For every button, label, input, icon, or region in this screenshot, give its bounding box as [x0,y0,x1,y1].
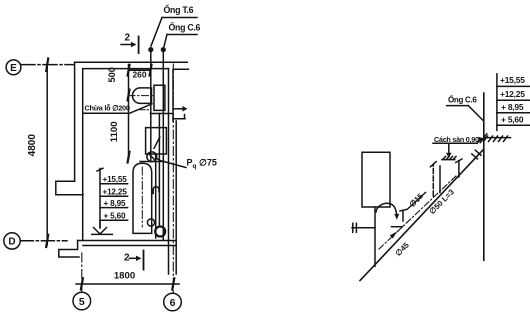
svg-text:+ 5,60: + 5,60 [501,114,524,124]
svg-text:500: 500 [107,67,117,82]
trap arc [376,203,399,220]
trap outlet dash [392,226,403,228]
label Pq leader [157,158,187,167]
bottom wall outer line [78,240,177,242]
centerline short [140,109,150,111]
label cach san underline [433,137,484,144]
right level line 15.55 [497,85,529,87]
flow arrowhead on supply [390,231,398,238]
shower box plan [146,128,167,154]
small floor hatch [442,156,456,159]
tick 1800 right [172,278,174,289]
svg-text:+ 5,60: + 5,60 [104,212,126,221]
right level line 12.25 [497,99,529,101]
shower box slash [154,137,160,148]
valve on supply [352,223,375,232]
supply dashdot short [379,176,456,249]
top wall outer line [75,61,188,63]
pipe stub lower through right wall [173,115,185,119]
section marker 2 bottom [130,251,144,270]
tank rectangle [362,152,390,207]
svg-text:+ 8,95: + 8,95 [104,199,126,208]
level line 8.95 [100,207,128,209]
top wall inner line [83,68,169,70]
svg-text:Ống C.6: Ống C.6 [169,22,201,33]
label Ong C6 right underline [447,106,484,121]
pipe riser 3 [158,114,160,227]
svg-text:E: E [10,63,17,74]
left wall inner line [82,69,84,241]
grid axis 5 dash-dot [81,253,83,292]
ground hatch at pipe [480,134,510,143]
level line 12.25 [100,195,128,197]
leader cach san down arrow [446,143,452,158]
pipe riser dot T6 [148,47,153,52]
floor drain circle A [147,152,157,162]
grid bubble 6 [164,293,182,311]
dimension line 260 [129,69,151,71]
bathtub plan [133,163,152,233]
tick on D line [46,235,48,247]
left wall outer line [74,62,76,181]
pipe chase rectangle [154,85,165,110]
left wall notch [56,181,83,195]
pipe riser dot C6 [161,47,166,52]
wall sleeve bracket right [173,69,188,121]
svg-text:+ 8,95: + 8,95 [501,102,524,112]
svg-text:+12,25: +12,25 [103,188,128,197]
tick 1800 left [81,278,83,289]
tub small circle [147,219,154,226]
floor drain cross [148,153,155,160]
main vertical pipe [483,93,485,260]
interior floor edge line [150,113,172,115]
svg-text:Chừa lỗ ∅200: Chừa lỗ ∅200 [85,104,130,113]
svg-text:Ống T.6: Ống T.6 [164,4,194,15]
main drain diagonal [360,149,484,280]
svg-text:∅50 L=3: ∅50 L=3 [427,187,456,216]
svg-text:D: D [8,237,15,248]
svg-text:+15,55: +15,55 [103,175,128,184]
svg-text:1800: 1800 [114,271,135,282]
grid axis 6 dash-dot [172,64,174,293]
tick 260 left [128,65,130,76]
bottom wall inner line [83,245,176,247]
tick 260 right [150,65,152,76]
grid bubble 5 [73,292,91,310]
right wall outer line [175,121,177,274]
drain circle C [155,227,165,237]
grid bubble D [4,233,20,249]
pipe stub arrow through right wall [173,106,188,112]
section marker 2 top [121,37,139,54]
svg-text:+15,55: +15,55 [500,75,525,85]
svg-text:Cách sàn 0,90: Cách sàn 0,90 [434,135,479,144]
tick 500 bottom [128,90,130,101]
pipe riser 1 [150,52,152,162]
dimension line 1800 [76,283,179,285]
trap hook in tub [153,187,159,194]
tank outlet pipe [374,207,376,266]
pipe riser 2 [155,154,157,238]
pipe riser 4 [162,52,164,240]
svg-text:5: 5 [79,296,85,308]
levels table left vertical [99,169,101,228]
label Chua lo underline [84,112,130,114]
tick on E line [46,59,48,72]
right level line 8.95 [497,112,529,114]
datum arrow below table [92,220,113,234]
interior line under drain [140,161,164,163]
bathtub centerline [141,167,143,227]
grid bubble E [6,60,21,75]
svg-text:2: 2 [124,253,130,264]
stub A pipe [430,162,440,196]
grid line D [20,240,67,242]
small riser on supply [400,210,406,222]
tick at table top [97,168,103,171]
svg-text:Ống C.6: Ống C.6 [448,95,477,105]
svg-text:4800: 4800 [27,134,38,157]
svg-text:∅15: ∅15 [408,191,426,209]
dimension column 500/1100 [128,65,130,159]
svg-text:Pq ∅75: Pq ∅75 [187,158,217,171]
leader Chua lo [130,104,153,114]
right wall inner line [168,69,170,274]
level line 15.55 [100,183,128,185]
dimension line 4800 vertical [46,65,48,245]
svg-text:+12,25: +12,25 [500,89,525,99]
crossing ticks on diagonal [472,150,481,159]
right level line 5.60 [497,124,529,126]
WC centerline [128,95,154,97]
stub B pipe [456,159,462,177]
level line 5.60 [100,219,128,221]
WC bowl plan [132,88,151,104]
tick 1100 bottom [128,152,130,163]
grid line E [21,64,74,66]
bottom-left step wall [59,241,79,258]
svg-text:6: 6 [170,297,176,309]
label underline O15 [407,193,426,210]
svg-text:2: 2 [125,33,131,44]
svg-text:260: 260 [133,69,147,79]
label Ong C.6 [164,35,197,47]
label Ong T.6 [151,18,197,47]
svg-text:1100: 1100 [109,121,120,142]
levels table right vertical [496,74,498,131]
